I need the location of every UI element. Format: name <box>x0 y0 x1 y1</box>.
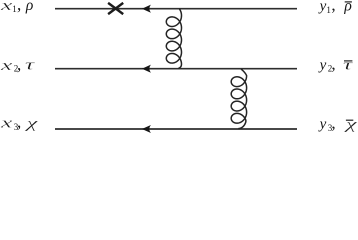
svg-text:χ: χ <box>343 117 358 133</box>
svg-text:,: , <box>17 0 21 14</box>
svg-text:τ: τ <box>343 58 354 74</box>
svg-text:,: , <box>17 113 21 132</box>
svg-text:x: x <box>0 0 13 14</box>
svg-text:χ: χ <box>23 116 38 132</box>
svg-text:τ: τ <box>25 58 36 74</box>
svg-text:y: y <box>318 58 327 74</box>
svg-text:ρ: ρ <box>25 0 33 14</box>
svg-text:,: , <box>331 114 335 133</box>
svg-text:1: 1 <box>326 5 331 15</box>
svg-text:y: y <box>318 117 327 133</box>
svg-text:y: y <box>318 0 327 15</box>
svg-text:x: x <box>0 58 13 74</box>
svg-text:,: , <box>331 0 335 15</box>
svg-text:x: x <box>0 116 13 132</box>
svg-text:,: , <box>331 55 335 74</box>
svg-text:,: , <box>17 55 21 74</box>
